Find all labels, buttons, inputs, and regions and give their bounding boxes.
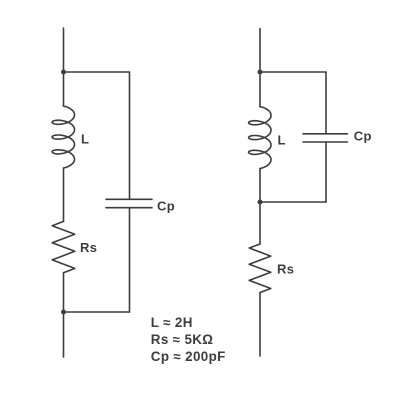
svg-text:L: L	[278, 132, 286, 147]
svg-text:L: L	[81, 132, 89, 147]
node: circuit1 bottom junction	[61, 310, 66, 315]
wire: circuit2 bottom rail	[260, 201, 326, 203]
svg-text:Rs: Rs	[80, 240, 97, 255]
svg-text:Cp: Cp	[157, 199, 175, 214]
wire: circuit1 bottom stub	[63, 312, 65, 357]
node: circuit1 top junction	[61, 70, 66, 75]
svg-text:Rs ≈ 5KΩ: Rs ≈ 5KΩ	[151, 332, 214, 347]
svg-text:L ≈ 2H: L ≈ 2H	[151, 315, 193, 330]
svg-text:Cp: Cp	[354, 129, 372, 144]
svg-text:Rs: Rs	[277, 262, 294, 277]
wire: circuit1 top stub	[63, 28, 65, 72]
wire: circuit2 between L and bottom rail	[259, 169, 261, 202]
inductor L (left circuit)	[52, 106, 75, 168]
wire: circuit2 right branch lower	[325, 142, 327, 202]
node: circuit2 bottom junction	[258, 200, 263, 205]
wire: circuit1 below Rs	[63, 273, 65, 312]
wire: circuit1 bottom rail	[64, 311, 130, 313]
wire: circuit2 between rail and Rs	[259, 202, 261, 244]
wire: circuit2 bottom stub	[259, 293, 261, 357]
wire: circuit1 between L and Rs	[63, 168, 65, 221]
svg-text:Cp ≈ 200pF: Cp ≈ 200pF	[151, 349, 226, 364]
resistor Rs (right circuit)	[249, 244, 271, 293]
wire: circuit2 top stub	[259, 29, 261, 73]
capacitor Cp (left circuit)	[106, 199, 152, 207]
wire: circuit1 right branch lower	[129, 208, 131, 312]
wire: circuit1 top rail	[64, 71, 130, 73]
resistor Rs (left circuit)	[52, 221, 75, 272]
inductor L (right circuit)	[249, 107, 271, 169]
wire: circuit2 left branch upper	[259, 72, 261, 107]
wire: circuit2 right branch upper	[325, 72, 327, 134]
wire: circuit1 right branch upper	[129, 72, 131, 199]
wire: circuit1 left branch upper	[63, 72, 65, 106]
node: circuit2 top junction	[258, 70, 263, 75]
capacitor Cp (right circuit)	[303, 134, 348, 142]
wire: circuit2 top rail	[260, 71, 326, 73]
